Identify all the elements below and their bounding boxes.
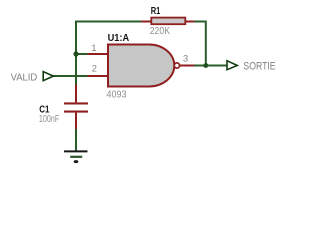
wire C1 bottom to ground xyxy=(75,129,77,152)
SORTIE terminal label xyxy=(243,61,275,73)
gate U1 pin 2 lead xyxy=(88,75,109,77)
capacitor C1 bottom plate xyxy=(64,111,88,113)
ground middle bar xyxy=(70,156,82,158)
VALID terminal label xyxy=(11,72,38,83)
capacitor C1 top plate xyxy=(64,102,88,104)
svg-text:U1:A: U1:A xyxy=(108,33,130,44)
ground top bar xyxy=(64,150,88,152)
svg-text:1: 1 xyxy=(91,43,96,53)
gate U1 pin 3 lead xyxy=(179,65,194,67)
resistor R1 value 220K xyxy=(150,26,171,37)
wire top-left L from resistor left to node A and down to C1 xyxy=(76,22,141,85)
pin number 1 xyxy=(91,43,96,53)
VALID input terminal triangle xyxy=(43,72,53,81)
op-amp gate U1 pin 1 lead xyxy=(88,53,109,55)
pin number 3 xyxy=(183,53,188,63)
capacitor C1 value 100nF xyxy=(39,114,59,125)
gate part number 4093 xyxy=(107,90,127,101)
resistor R1 pin left xyxy=(141,21,152,23)
resistor R1 body xyxy=(151,18,185,25)
output node junction dot xyxy=(203,63,208,68)
ground bottom dot xyxy=(74,160,79,163)
capacitor C1 pin bottom xyxy=(75,113,77,129)
svg-text:100nF: 100nF xyxy=(39,114,59,125)
resistor R1 pin right xyxy=(185,21,195,23)
svg-text:R1: R1 xyxy=(151,6,161,17)
wire VALID terminal to pin 2 xyxy=(53,75,87,77)
svg-text:220K: 220K xyxy=(150,26,171,37)
svg-text:VALID: VALID xyxy=(11,72,38,83)
node A junction dot xyxy=(73,51,78,56)
wire right L from resistor right down to output node xyxy=(195,22,206,66)
gate label U1:A xyxy=(108,33,130,44)
wire stub node A to pin 1 xyxy=(76,53,88,55)
NAND gate U1:A inversion bubble xyxy=(174,63,179,68)
svg-text:SORTIE: SORTIE xyxy=(243,61,275,73)
svg-text:3: 3 xyxy=(183,53,188,63)
resistor R1 label xyxy=(151,6,161,17)
pin number 2 xyxy=(92,63,97,73)
SORTIE output terminal triangle xyxy=(227,61,237,70)
NAND gate U1:A body 4093 xyxy=(108,45,174,87)
capacitor C1 pin top xyxy=(75,85,77,103)
wire output node to SORTIE terminal xyxy=(195,65,228,67)
capacitor C1 label xyxy=(39,105,50,116)
svg-text:2: 2 xyxy=(92,63,97,73)
svg-text:4093: 4093 xyxy=(107,90,127,101)
